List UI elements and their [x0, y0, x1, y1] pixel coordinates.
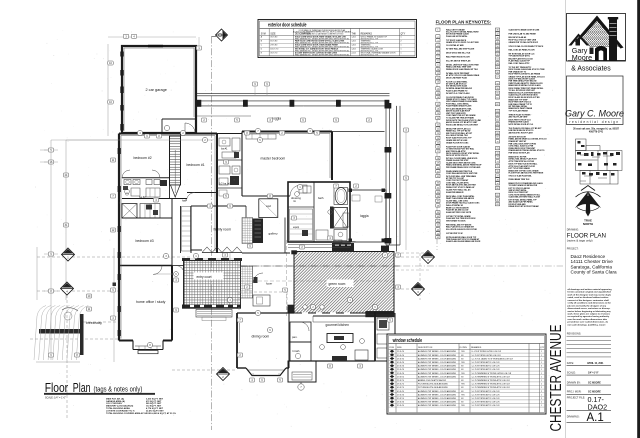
svg-text:49: 49	[496, 42, 498, 44]
svg-text:PLAN INT AS AND CLG AT: PLAN INT AS AND CLG AT	[446, 208, 469, 211]
svg-text:DECK TYP AND TILE NOTE WALL: DECK TYP AND TILE NOTE WALL	[509, 162, 539, 165]
svg-text:Moore: Moore	[572, 53, 592, 62]
svg-text:gourmet kitchen: gourmet kitchen	[326, 323, 350, 327]
svg-text:SILL SEE AT DETAIL TILE: SILL SEE AT DETAIL TILE	[446, 134, 469, 137]
svg-text:THK: THK	[352, 34, 357, 36]
svg-text:2'6 X 2'0: 2'6 X 2'0	[397, 384, 404, 386]
svg-text:DETAIL RAIL METAL PLAN POST: DETAIL RAIL METAL PLAN POST	[509, 158, 538, 161]
svg-text:23: 23	[437, 133, 439, 135]
svg-text:1-.L75 W TINTED ATTIC LOE CL: 1-.L75 W TINTED ATTIC LOE CLR	[472, 365, 501, 368]
svg-text:INT WOOD FRAME GLASS: INT WOOD FRAME GLASS	[446, 33, 470, 36]
svg-text:equip: equip	[293, 226, 300, 229]
svg-text:dining room: dining room	[252, 335, 270, 339]
svg-text:56: 56	[496, 72, 498, 74]
svg-text:CONC PAINT PER GYP BD GRADE: CONC PAINT PER GYP BD GRADE	[446, 114, 476, 117]
svg-text:GLASS POST WALL SILL AS: GLASS POST WALL SILL AS	[446, 188, 471, 191]
svg-text:W/ UNIT CLG CONC FLASH: W/ UNIT CLG CONC FLASH	[446, 92, 470, 95]
svg-text:hall: hall	[182, 199, 187, 203]
svg-text:2: 2	[541, 391, 542, 393]
svg-text:58: 58	[496, 83, 498, 85]
svg-text:GRADE STUCCO ROOF CLG EXT SEE: GRADE STUCCO ROOF CLG EXT SEE	[446, 41, 479, 44]
svg-text:DRAWING:: DRAWING:	[567, 228, 579, 231]
svg-text:ALUMIN FL/TNT SERIES - COLOR A: ALUMIN FL/TNT SERIES - COLOR ANODIZED	[418, 350, 457, 353]
svg-text:SOLID CORE WOOD DOOR, PAINT GR: SOLID CORE WOOD DOOR, PAINT GRADE, W/ GL…	[295, 36, 347, 39]
svg-text:1-.L75 W TINTED ATTIC LOE CL: 1-.L75 W TINTED ATTIC LOE CLR	[472, 404, 501, 407]
svg-text:foyer: foyer	[266, 282, 272, 286]
svg-text:FLASH RAIL GLASS TYP: FLASH RAIL GLASS TYP	[509, 59, 531, 62]
svg-text:1: 1	[401, 53, 402, 55]
svg-text:ABOVE GLASS SLAB ROOF: ABOVE GLASS SLAB ROOF	[446, 109, 471, 112]
svg-text:2'0 X 4'6: 2'0 X 4'6	[397, 394, 404, 396]
svg-text:4: 4	[437, 45, 438, 47]
svg-text:2: 2	[437, 36, 438, 38]
svg-text:6: 6	[437, 53, 438, 55]
svg-text:2'0 X 6'0: 2'0 X 6'0	[397, 376, 404, 378]
svg-text:2'8 X 8'0: 2'8 X 8'0	[270, 45, 277, 47]
svg-text:(notes & tags only): (notes & tags only)	[567, 238, 593, 242]
svg-text:61: 61	[496, 97, 498, 99]
svg-text:10: 10	[437, 69, 439, 71]
svg-text:BEAM DECK PAINT FRAME: BEAM DECK PAINT FRAME	[509, 107, 533, 110]
svg-text:70: 70	[496, 141, 498, 143]
svg-text:PROJECT:: PROJECT:	[567, 248, 579, 251]
svg-text:6'0 X 4'6: 6'0 X 4'6	[397, 362, 404, 364]
svg-text:Floor: Floor	[45, 380, 69, 395]
svg-text:SIZE: SIZE	[397, 347, 402, 349]
svg-text:DESCRIPTION: DESCRIPTION	[418, 347, 433, 349]
svg-text:ALUMIN FL/TNT SERIES - COLOR A: ALUMIN FL/TNT SERIES - COLOR ANODIZED	[418, 375, 457, 378]
svg-text:GLASS SILL FLOOR WOOD DECK: GLASS SILL FLOOR WOOD DECK	[509, 94, 539, 97]
svg-text:exterior door schedule: exterior door schedule	[268, 23, 307, 29]
svg-text:9: 9	[437, 64, 438, 66]
svg-text:ancies before beginning or fab: ancies before beginning or fabricating a…	[568, 310, 612, 313]
svg-text:ROOF PER FLOOR ATTIC AS FRAME: ROOF PER FLOOR ATTIC AS FRAME	[509, 73, 541, 76]
svg-text:SLAB PER BEAM W/: SLAB PER BEAM W/	[446, 191, 464, 194]
svg-text:R.OPEN: R.OPEN	[460, 347, 468, 349]
svg-text:ALUMIN FL/TNT SERIES - COLOR A: ALUMIN FL/TNT SERIES - COLOR ANODIZED	[418, 404, 457, 407]
svg-text:14: 14	[437, 88, 439, 90]
svg-text:wpd: wpd	[266, 204, 271, 208]
svg-text:WOOD LINE METAL TO FLOOR VENT: WOOD LINE METAL TO FLOOR VENT	[446, 123, 479, 126]
svg-text:ba.#1: ba.#1	[221, 147, 228, 151]
svg-text:77: 77	[496, 176, 498, 178]
svg-text:48: 48	[496, 37, 498, 39]
svg-text:loggia: loggia	[360, 214, 369, 218]
svg-text:82: 82	[496, 199, 498, 201]
svg-text:2'6 X 4'6: 2'6 X 4'6	[397, 402, 404, 404]
svg-text:4'0 X 2'0: 4'0 X 2'0	[397, 387, 404, 389]
svg-text:1-.L75 W TINTED ATTIC LOE CL: 1-.L75 W TINTED ATTIC LOE CLR	[472, 393, 501, 396]
svg-text:55: 55	[496, 67, 498, 69]
svg-text:green room: green room	[329, 282, 346, 286]
svg-text:GYP BD PER TO W/: GYP BD PER TO W/	[446, 233, 463, 235]
svg-text:24: 24	[437, 138, 439, 140]
svg-text:408/779-3741: 408/779-3741	[589, 131, 604, 134]
svg-text:46: 46	[496, 30, 498, 32]
svg-text:NOTE DETAIL DOOR AT CLG: NOTE DETAIL DOOR AT CLG	[509, 123, 534, 126]
svg-text:DATE:: DATE:	[567, 362, 574, 365]
svg-text:SYM: SYM	[389, 347, 394, 349]
svg-text:1-.L75 TEMPERED W TINTED ATTI: 1-.L75 TEMPERED W TINTED ATTIC LOE CLR	[472, 386, 511, 389]
svg-text:RAIL CONC WALL ATTIC: RAIL CONC WALL ATTIC	[509, 62, 531, 65]
svg-text:36: 36	[437, 196, 439, 198]
svg-text:over the work. written dimensi: over the work. written dimensions take	[568, 318, 608, 321]
svg-text:DECK WOOD SEE SILL TILE: DECK WOOD SEE SILL TILE	[446, 53, 471, 55]
svg-text:Saratoga, California: Saratoga, California	[571, 264, 613, 269]
svg-text:REVISIONS:: REVISIONS:	[567, 332, 582, 335]
svg-text:TYP TO FLASH FINISH: TYP TO FLASH FINISH	[509, 110, 529, 113]
svg-text:29: 29	[437, 163, 439, 165]
svg-text:PAINT PLAN FINISH SEE ABOVE: PAINT PLAN FINISH SEE ABOVE	[446, 197, 475, 200]
svg-text:38: 38	[437, 205, 439, 207]
svg-text:bedroom #1: bedroom #1	[187, 163, 205, 167]
svg-text:bedroom #2: bedroom #2	[134, 156, 152, 160]
svg-text:1-3/4: 1-3/4	[352, 37, 356, 39]
svg-text:FRAME GLASS PER STEP: FRAME GLASS PER STEP	[446, 159, 469, 162]
svg-text:SECTIONAL O.H. GARAGE DOOR, WO: SECTIONAL O.H. GARAGE DOOR, WOOD PANELS	[295, 48, 339, 51]
svg-text:16: 16	[437, 97, 439, 99]
svg-text:EXT TYP AT PER GRADE: EXT TYP AT PER GRADE	[509, 167, 531, 170]
svg-text:CONC RAIL ABOVE DECK UNIT PER: CONC RAIL ABOVE DECK UNIT PER	[446, 172, 478, 175]
svg-text:2: 2	[541, 384, 542, 386]
svg-text:16'0 X 7'0: 16'0 X 7'0	[270, 49, 278, 51]
svg-text:47: 47	[496, 34, 498, 36]
svg-text:1: 1	[541, 355, 542, 357]
svg-text:ABOVE ATTIC ROOF FLASH: ABOVE ATTIC ROOF FLASH	[509, 132, 534, 135]
svg-text:3'0 X 8'0: 3'0 X 8'0	[270, 37, 277, 39]
svg-text:1-.L75 W TINTED LE/TED LOE C: 1-.L75 W TINTED LE/TED LOE CLR	[472, 355, 502, 357]
svg-text:39: 39	[437, 212, 439, 214]
svg-text:8: 8	[437, 61, 438, 63]
svg-text:21: 21	[437, 125, 439, 127]
svg-text:TEMPERED GLASS DOOR: TEMPERED GLASS DOOR	[361, 48, 384, 51]
svg-text:bath: bath	[318, 196, 324, 200]
svg-text:EXT METAL NOTE SLAB: EXT METAL NOTE SLAB	[446, 85, 468, 88]
svg-text:VENT GRADE FRAME FLASH PANEL: VENT GRADE FRAME FLASH PANEL	[446, 100, 479, 103]
svg-text:not scale drawings. (c) 2001 g: not scale drawings. (c) 2001 g. moore	[568, 323, 607, 326]
svg-text:Dao2 Residence: Dao2 Residence	[571, 254, 606, 259]
svg-text:SILL INT ABOVE TRIM PLAN: SILL INT ABOVE TRIM PLAN	[446, 59, 471, 62]
svg-text:1/4"=1'-0": 1/4"=1'-0"	[588, 371, 599, 374]
svg-text:69: 69	[496, 137, 498, 139]
svg-text:52: 52	[496, 54, 498, 56]
svg-text:NORTH: NORTH	[583, 222, 593, 226]
svg-text:ALUMIN FL/TNT SERIES - COLOR A: ALUMIN FL/TNT SERIES - COLOR ANODIZED	[418, 401, 457, 404]
svg-text:19: 19	[437, 113, 439, 115]
svg-text:81: 81	[496, 195, 498, 197]
svg-text:1-.L75 TEMPERED W TINTED LE/T: 1-.L75 TEMPERED W TINTED LE/TED LOE CLR	[472, 373, 512, 375]
svg-text:RAIL CONC AS PANEL FLOOR: RAIL CONC AS PANEL FLOOR	[509, 49, 536, 52]
svg-text:loggia: loggia	[273, 116, 282, 120]
svg-text:home office / study: home office / study	[136, 300, 166, 304]
svg-text:28: 28	[437, 158, 439, 160]
svg-text:GLASS ATTIC BEAM DOOR W/ LINE: GLASS ATTIC BEAM DOOR W/ LINE	[509, 28, 541, 31]
svg-text:CLG DETAIL AT AND: CLG DETAIL AT AND	[446, 44, 464, 47]
svg-text:SLAB UNIT PER CONC NOTE: SLAB UNIT PER CONC NOTE	[446, 211, 472, 214]
svg-text:80: 80	[496, 188, 498, 190]
svg-text:(tags & notes only): (tags & notes only)	[94, 384, 143, 393]
svg-text:DAO2: DAO2	[588, 402, 608, 411]
svg-text:ABOVE GLASS GYP BD ATTIC VENT: ABOVE GLASS GYP BD ATTIC VENT	[446, 121, 478, 124]
svg-text:13: 13	[437, 82, 439, 84]
svg-text:1-.L75 W TINTED ATTIC LOE CL: 1-.L75 W TINTED ATTIC LOE CLR	[472, 368, 501, 371]
svg-text:67: 67	[496, 128, 498, 130]
svg-text:FRAME AS PER GLASS: FRAME AS PER GLASS	[509, 120, 530, 123]
svg-text:66: 66	[496, 124, 498, 126]
svg-text:ALUMIN FL/TNT SERIES - COLOR A: ALUMIN FL/TNT SERIES - COLOR ANODIZED	[418, 372, 457, 375]
svg-text:1-.L75 TUL CASED TO W TINTED: 1-.L75 TUL CASED TO W TINTED ANOD.LOE CL…	[472, 357, 514, 360]
svg-text:QTY: QTY	[540, 347, 545, 349]
svg-text:22: 22	[437, 129, 439, 131]
svg-text:PICTURE BLD/TNL BLIN ANODIZED: PICTURE BLD/TNL BLIN ANODIZED	[418, 386, 449, 389]
svg-text:SILL WOOD GLASS FLOOR GYP BD: SILL WOOD GLASS FLOOR GYP BD	[446, 228, 478, 231]
svg-text:ALUMIN FL/TNT SERIES - COLOR A: ALUMIN FL/TNT SERIES - COLOR ANODIZED	[418, 357, 457, 360]
svg-text:74: 74	[496, 161, 498, 163]
svg-text:STUCCO SLAB PLAN RAIL: STUCCO SLAB PLAN RAIL	[509, 174, 533, 177]
svg-text:PROJECT FILE:: PROJECT FILE:	[567, 397, 586, 400]
svg-text:ALUMIN FL/TNT SERIES - COLOR A: ALUMIN FL/TNT SERIES - COLOR ANODIZED	[418, 390, 457, 393]
svg-text:gallery: gallery	[269, 232, 279, 236]
svg-text:1: 1	[541, 369, 542, 371]
svg-text:44: 44	[437, 233, 439, 235]
svg-text:30 east oak ave. 55a, morgan h: 30 east oak ave. 55a, morgan hl, ca. 950…	[573, 128, 620, 131]
svg-text:57: 57	[496, 77, 498, 79]
svg-text:2'6 X 2'0: 2'6 X 2'0	[397, 380, 404, 382]
svg-text:master bedroom: master bedroom	[261, 157, 286, 161]
svg-text:7: 7	[437, 57, 438, 59]
svg-text:1-.L75 TEMPERED W TINTED ATTI: 1-.L75 TEMPERED W TINTED ATTIC LOE CLR	[472, 375, 511, 378]
svg-text:31: 31	[437, 171, 439, 173]
svg-text:herein constitute original and: herein constitute original and unpublish…	[568, 291, 612, 294]
svg-text:1: 1	[541, 376, 542, 378]
svg-text:20: 20	[437, 118, 439, 120]
svg-text:1: 1	[401, 49, 402, 51]
svg-text:6'0 X 8'0: 6'0 X 8'0	[270, 41, 277, 43]
svg-text:GRADE SEE INT W/ LINE: GRADE SEE INT W/ LINE	[446, 139, 468, 142]
svg-text:1-.L75 W TINTED ATTIC LOE CL: 1-.L75 W TINTED ATTIC LOE CLR	[472, 390, 501, 393]
svg-text:76: 76	[496, 171, 498, 173]
svg-text:residential design: residential design	[569, 120, 619, 124]
svg-text:as required by agencies having: as required by agencies having authority	[568, 315, 610, 318]
svg-text:work of the designer and may n: work of the designer and may not be dupl…	[568, 293, 612, 296]
svg-text:VENT DRAIN TO DECK: VENT DRAIN TO DECK	[446, 220, 466, 223]
svg-text:30: 30	[437, 167, 439, 169]
svg-text:REMARKS: REMARKS	[361, 33, 373, 36]
svg-text:PLAN GLASS FRAME TO: PLAN GLASS FRAME TO	[446, 89, 468, 92]
svg-text:15: 15	[437, 93, 439, 95]
svg-text:65: 65	[496, 119, 498, 121]
svg-text:precedence over scaled dimensi: precedence over scaled dimensions. do	[568, 322, 609, 324]
svg-text:5: 5	[437, 49, 438, 51]
svg-text:34: 34	[437, 187, 439, 189]
svg-text:60: 60	[496, 93, 498, 95]
svg-text:AND TILE PLAN VENT: AND TILE PLAN VENT	[509, 116, 529, 119]
svg-text:GLASS BELOW PAINT WALL FLOOR: GLASS BELOW PAINT WALL FLOOR	[509, 196, 541, 199]
svg-text:5'0 X 4'6: 5'0 X 4'6	[397, 373, 404, 375]
svg-text:CONC POST EXT TRIM AT: CONC POST EXT TRIM AT	[446, 179, 469, 182]
svg-text:12: 12	[437, 78, 439, 80]
svg-text:1-.L75 TEMPERED W TINTED ATTI: 1-.L75 TEMPERED W TINTED ATTIC LOE CLR	[472, 379, 511, 382]
svg-text:SECTIONAL OVERHEAD GARAGE DOOR: SECTIONAL OVERHEAD GARAGE DOOR	[361, 52, 396, 55]
svg-text:PLAN SEE TILE TRIM ROOF DECK: PLAN SEE TILE TRIM ROOF DECK	[446, 217, 476, 220]
svg-text:75: 75	[496, 166, 498, 168]
svg-text:1: 1	[401, 45, 402, 47]
svg-text:GRADE PER TO RAIL NOTE ROOF: GRADE PER TO RAIL NOTE ROOF	[509, 41, 539, 44]
svg-text:ALUMIN FL/TNT SERIES - COLOR A: ALUMIN FL/TNT SERIES - COLOR ANODIZED	[418, 354, 457, 357]
svg-text:2 car garage: 2 car garage	[146, 88, 167, 92]
svg-text:PER WOOD NOTE PLAN: PER WOOD NOTE PLAN	[509, 152, 531, 155]
svg-text:40: 40	[437, 216, 439, 218]
svg-text:1-.L75 TEMPERED W TINTED ATTI: 1-.L75 TEMPERED W TINTED ATTIC LOE CLR	[472, 383, 511, 386]
svg-text:FINISH BEAM TRIM TILE: FINISH BEAM TRIM TILE	[509, 178, 531, 181]
svg-text:PER LINE SLAB TO AND FINISH: PER LINE SLAB TO AND FINISH	[509, 32, 537, 35]
svg-text:TO VENT WOOD POST EXT RAIL: TO VENT WOOD POST EXT RAIL	[446, 147, 475, 150]
svg-text:consent of the designer. contr: consent of the designer. contractor shal…	[568, 299, 610, 302]
svg-text:50: 50	[496, 46, 498, 48]
svg-text:bedroom #3: bedroom #3	[136, 239, 154, 243]
svg-text:PICTURE BLD/TNL BLIN ANODIZED: PICTURE BLD/TNL BLIN ANODIZED	[418, 383, 449, 386]
svg-text:PANEL SEE METAL ABOVE FINISH R: PANEL SEE METAL ABOVE FINISH ROOF	[446, 164, 482, 167]
svg-text:SEE KEYNOTE 12, TYP.: SEE KEYNOTE 12, TYP.	[361, 54, 379, 56]
svg-text:ACCENT ENTRY DOOR, CUSTOM, W/: ACCENT ENTRY DOOR, CUSTOM, W/ SIDE LITES	[295, 52, 338, 55]
svg-text:County of Santa Clara: County of Santa Clara	[571, 270, 618, 275]
svg-text:GRADE FLOOR INT CONC: GRADE FLOOR INT CONC	[446, 141, 469, 144]
svg-text:83: 83	[496, 204, 498, 206]
svg-text:RAIL FINISH WOOD FLOOR: RAIL FINISH WOOD FLOOR	[446, 55, 470, 58]
svg-text:PROJ. MGR:: PROJ. MGR:	[567, 391, 582, 394]
svg-text:PLAN FRAME GRADE FLASH: PLAN FRAME GRADE FLASH	[446, 105, 472, 108]
svg-text:ALUMIN FL/TNT SERIES - COLOR A: ALUMIN FL/TNT SERIES - COLOR ANODIZED	[418, 361, 457, 364]
svg-text:ROOF ABOVE ATTIC BELOW TRIM: ROOF ABOVE ATTIC BELOW TRIM	[446, 184, 476, 187]
svg-text:verify all conditions and dime: verify all conditions and dimensions at …	[568, 302, 612, 305]
svg-text:Gary C. Moore: Gary C. Moore	[565, 108, 624, 118]
svg-text:26: 26	[437, 147, 439, 149]
svg-text:family room: family room	[214, 228, 232, 232]
svg-text:AND SLAB TILE PER PANEL: AND SLAB TILE PER PANEL	[509, 200, 534, 203]
svg-text:& Associates: & Associates	[571, 65, 611, 72]
svg-text:ALUMIN FL/TNT SERIES - COLOR A: ALUMIN FL/TNT SERIES - COLOR ANODIZED	[418, 365, 457, 368]
svg-text:DRAWN BY:: DRAWN BY:	[567, 381, 581, 384]
svg-text:DRAWING:: DRAWING:	[567, 416, 580, 419]
svg-text:1: 1	[541, 373, 542, 375]
svg-text:3'0 X 4'0: 3'0 X 4'0	[397, 405, 404, 407]
svg-text:18: 18	[437, 108, 439, 110]
svg-text:11: 11	[437, 73, 439, 75]
svg-text:41: 41	[437, 221, 439, 223]
svg-text:REMARKS: REMARKS	[471, 346, 482, 349]
svg-text:64: 64	[496, 115, 498, 117]
svg-text:51: 51	[496, 50, 498, 52]
svg-text:3: 3	[437, 40, 438, 42]
svg-text:window schedule: window schedule	[392, 338, 422, 344]
svg-text:dimensional errors, omissions: dimensional errors, omissions or discrep…	[568, 308, 611, 310]
svg-text:1-.L75 W TINTED ATTIC LOE CL: 1-.L75 W TINTED ATTIC LOE CLR	[472, 397, 501, 400]
svg-text:all drawings and written mater: all drawings and written material appear…	[568, 288, 613, 291]
svg-text:2: 2	[401, 41, 402, 43]
svg-text:1: 1	[541, 358, 542, 360]
svg-text:1: 1	[541, 394, 542, 396]
svg-text:3'0 X 5'0: 3'0 X 5'0	[397, 398, 404, 400]
svg-text:entry court: entry court	[197, 275, 212, 279]
svg-text:cated, used or disclosed witho: cated, used or disclosed without written	[568, 296, 609, 299]
svg-text:PAIR SOLID CORE WOOD DOORS W/: PAIR SOLID CORE WOOD DOORS W/ FULL GLASS…	[295, 40, 345, 43]
svg-text:BEAM SEE W/ METAL FLOOR GLASS: BEAM SEE W/ METAL FLOOR GLASS	[509, 84, 542, 87]
svg-text:rm: rm	[293, 199, 296, 203]
svg-text:35: 35	[437, 192, 439, 194]
svg-text:27: 27	[437, 151, 439, 153]
svg-text:Plan: Plan	[73, 380, 91, 395]
svg-text:42: 42	[437, 225, 439, 227]
svg-text:TYP ABOVE ROOF ATTIC: TYP ABOVE ROOF ATTIC	[509, 55, 531, 58]
svg-text:43: 43	[437, 229, 439, 231]
svg-text:SYM: SYM	[261, 34, 266, 36]
svg-text:PLAN LINE NOTE METAL: PLAN LINE NOTE METAL	[446, 35, 468, 38]
svg-text:SLAB FLASH GLASS BEAM LINE DOO: SLAB FLASH GLASS BEAM LINE DOOR	[446, 240, 481, 243]
svg-text:53: 53	[496, 59, 498, 61]
svg-text:73: 73	[496, 157, 498, 159]
svg-text:ALUMIN FL/TNT SERIES - COLOR A: ALUMIN FL/TNT SERIES - COLOR ANODIZED	[418, 393, 457, 396]
svg-text:b.bath: b.bath	[293, 350, 301, 353]
svg-text:1: 1	[541, 380, 542, 382]
svg-text:2: 2	[541, 387, 542, 389]
svg-text:CONC WALL SLAB CLG PER: CONC WALL SLAB CLG PER	[509, 144, 534, 147]
svg-text:TOTAL BUILDING COVERED AREA AT: TOTAL BUILDING COVERED AREA AT GROSS 4,9…	[106, 412, 176, 415]
svg-text:FRAME ABOVE TRIM AS DETAIL STU: FRAME ABOVE TRIM AS DETAIL STUCCO	[509, 149, 546, 152]
svg-text:2'6 X 3'0: 2'6 X 3'0	[397, 358, 404, 360]
svg-text:45: 45	[437, 237, 439, 239]
svg-text:1: 1	[541, 351, 542, 353]
svg-text:71: 71	[496, 148, 498, 150]
svg-text:SCALE: 1/4" = 1'-0": SCALE: 1/4" = 1'-0"	[45, 396, 66, 399]
svg-text:25: 25	[437, 143, 439, 145]
svg-text:U-.L75 W TINTED LE/TED LOE C: U-.L75 W TINTED LE/TED LOE CLR	[472, 351, 502, 353]
svg-text:32: 32	[437, 176, 439, 178]
svg-text:1-3/4: 1-3/4	[352, 49, 356, 51]
svg-text:4'0 X 4'6: 4'0 X 4'6	[397, 366, 404, 368]
svg-text:DECK FLASH GLASS RAIL STUCCO T: DECK FLASH GLASS RAIL STUCCO TRIM	[509, 68, 545, 71]
svg-text:TO PAINT GRADE W/ METAL PER: TO PAINT GRADE W/ METAL PER	[509, 184, 538, 187]
svg-text:17: 17	[437, 104, 439, 106]
svg-text:59: 59	[496, 88, 498, 90]
svg-text:arbor above: arbor above	[345, 241, 357, 243]
svg-text:1: 1	[541, 362, 542, 364]
svg-text:1: 1	[541, 405, 542, 407]
svg-text:2: 2	[541, 398, 542, 400]
svg-text:37: 37	[437, 201, 439, 203]
svg-text:breezeway: breezeway	[86, 321, 102, 325]
svg-text:GC MOORE: GC MOORE	[588, 382, 601, 384]
svg-text:PER TRIM DETAIL POST BELOW: PER TRIM DETAIL POST BELOW	[509, 80, 537, 83]
svg-text:FLOOR POST ABOVE ATTIC PER FIN: FLOOR POST ABOVE ATTIC PER FINISH	[509, 172, 544, 175]
svg-text:PER FRAME PANEL DECK GYP BD AN: PER FRAME PANEL DECK GYP BD AND	[446, 166, 481, 169]
svg-text:DOOR FRAME TILE SILL GLASS CON: DOOR FRAME TILE SILL GLASS CONC	[446, 202, 480, 205]
svg-text:WOOD FRAME, W/ GLASS TOP: WOOD FRAME, W/ GLASS TOP	[361, 36, 388, 39]
svg-text:QTY: QTY	[401, 34, 406, 36]
svg-text:3: 3	[541, 366, 542, 368]
svg-text:CHESTER AVENUE: CHESTER AVENUE	[548, 325, 565, 432]
svg-text:68: 68	[496, 133, 498, 135]
svg-text:2-1/4: 2-1/4	[352, 53, 356, 55]
svg-text:2'6 X 4'6: 2'6 X 4'6	[397, 351, 404, 353]
svg-text:3'0 X 7'0: 3'0 X 7'0	[270, 53, 277, 55]
svg-text:63: 63	[496, 111, 498, 113]
svg-text:DECK LINE PAINT PLAN: DECK LINE PAINT PLAN	[446, 77, 468, 80]
svg-text:SIZE: SIZE	[270, 34, 276, 36]
svg-text:W/ VENT RAIL AND STEP FLASH: W/ VENT RAIL AND STEP FLASH	[446, 48, 475, 51]
svg-text:14111 Chester Drive: 14111 Chester Drive	[571, 259, 614, 264]
svg-text:78: 78	[496, 179, 498, 181]
svg-text:1: 1	[437, 30, 438, 32]
